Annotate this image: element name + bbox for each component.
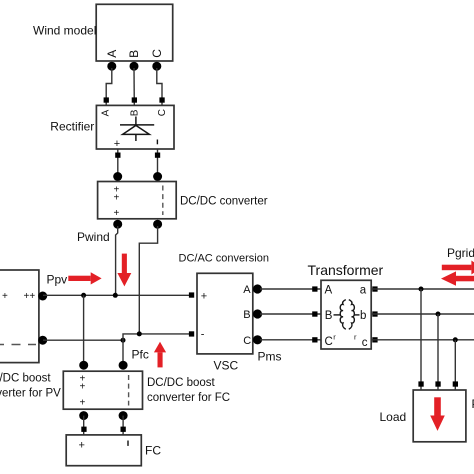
svg-text:VSC: VSC	[214, 359, 239, 373]
svg-text:B: B	[127, 50, 141, 58]
svg-text:+: +	[79, 440, 85, 452]
port square transformer B	[312, 311, 317, 316]
wire positive dc bus	[43, 294, 194, 296]
junction dot negative rail	[121, 338, 126, 343]
wire DC/DC out + down to dc bus	[116, 226, 118, 295]
junction dot phase b	[436, 312, 441, 317]
port dot PV out -	[38, 336, 47, 345]
port dot FC converter out -	[119, 411, 128, 420]
junction dot bus to FC converter	[81, 293, 86, 298]
port square transformer a	[372, 286, 377, 291]
port square VSC in -	[189, 331, 194, 336]
block: FC box	[66, 435, 141, 466]
svg-text:C: C	[150, 49, 164, 58]
port square load b	[435, 381, 440, 386]
svg-text:C: C	[243, 335, 251, 347]
block: Rectifier box	[96, 105, 174, 149]
svg-text:+: +	[80, 398, 86, 409]
port square load a	[418, 381, 423, 386]
port dot A wind	[107, 62, 116, 71]
svg-text:converter for PV: converter for PV	[0, 388, 61, 400]
svg-text:DC/DC boost: DC/DC boost	[0, 373, 51, 385]
port dot DC/DC out +	[113, 220, 122, 229]
port square transformer C	[312, 337, 317, 342]
svg-text:B: B	[243, 309, 250, 321]
diode symbol in rectifier	[120, 117, 154, 142]
port dot FC converter in +	[79, 361, 88, 370]
wire wind C to rectifier C	[157, 68, 162, 106]
block: Wind model box	[96, 4, 173, 61]
port dot VSC C	[253, 335, 262, 344]
svg-text:Load: Load	[380, 410, 407, 424]
port square rectifier out -	[155, 153, 160, 158]
port square A rectifier input	[104, 97, 109, 102]
svg-text:C: C	[325, 336, 333, 348]
wire FC converter to FC +	[83, 416, 85, 435]
dashed line inside PV converter	[0, 344, 36, 346]
port square transformer A	[312, 286, 317, 291]
wire phase c to grid	[371, 339, 474, 341]
block: DC/DC converter (wind) box	[98, 182, 177, 219]
svg-text:a: a	[360, 285, 367, 297]
svg-text:A: A	[243, 284, 251, 296]
arrow Pgrid import (red left)	[441, 271, 474, 285]
svg-text:FC: FC	[145, 444, 161, 458]
svg-text:+: +	[201, 290, 207, 302]
svg-text:DC/DC boost: DC/DC boost	[147, 377, 216, 389]
port dot VSC B	[253, 309, 262, 318]
wire bus down to FC converter +	[83, 295, 85, 364]
label - (rectifier dc out)	[157, 140, 158, 145]
svg-text:+: +	[114, 193, 120, 204]
svg-text:Pwind: Pwind	[77, 230, 110, 244]
svg-text:C: C	[157, 109, 168, 116]
port square C rectifier input	[159, 97, 164, 102]
svg-text:A: A	[325, 285, 333, 297]
wire VSC C to transformer	[260, 339, 321, 341]
wire phase c down to load	[454, 340, 456, 390]
svg-text:+: +	[114, 138, 120, 150]
arrow Pwind (red down)	[117, 254, 131, 287]
port dot B wind	[130, 62, 139, 71]
svg-text:-: -	[201, 329, 205, 341]
arrow load power (red down)	[430, 397, 445, 431]
port square FC +	[81, 427, 86, 432]
arrow Ppv (red right)	[68, 272, 101, 284]
svg-text:Ppv: Ppv	[47, 273, 68, 287]
port square transformer c	[372, 337, 377, 342]
svg-text:B: B	[325, 310, 333, 322]
label - inside FC	[127, 441, 128, 446]
svg-text:A: A	[105, 50, 119, 58]
wire negative rail from PV	[43, 339, 123, 341]
port square B rectifier input	[132, 97, 137, 102]
svg-text:+: +	[2, 291, 8, 302]
block: Load box	[413, 390, 466, 442]
wire VSC A to transformer	[260, 288, 321, 290]
wire phase b to grid	[371, 313, 474, 315]
wire phase b down to load	[437, 314, 439, 390]
junction dot negative rail wind	[137, 331, 142, 336]
port square load c	[453, 381, 458, 386]
svg-text:Transformer: Transformer	[308, 262, 384, 278]
wire FC converter to FC -	[122, 416, 124, 435]
svg-text:Pms: Pms	[258, 350, 282, 364]
port dot DC/DC in +	[113, 172, 122, 181]
junction dot phase c	[453, 337, 458, 342]
wire phase a down to load	[420, 289, 422, 390]
junction dot bus to wind DC/DC	[113, 293, 118, 298]
svg-text:Wind model: Wind model	[33, 24, 96, 38]
port dot C wind	[152, 62, 161, 71]
dashed line inside FC converter	[128, 375, 130, 406]
svg-text:B: B	[129, 109, 140, 116]
svg-text:+: +	[80, 382, 86, 393]
svg-text:+: +	[114, 208, 120, 219]
arrow Pfc (red up)	[154, 342, 166, 368]
dashed line inside DC/DC converter	[162, 186, 164, 216]
port square VSC in +	[189, 292, 194, 297]
arrow Pgrid export (red right)	[442, 261, 474, 275]
svg-text:Rectifier: Rectifier	[50, 120, 94, 134]
transformer coil symbol	[334, 300, 360, 330]
block: DC/DC boost converter for FC box	[63, 371, 142, 409]
svg-text:Pgrid: Pgrid	[447, 246, 474, 260]
svg-text:DC/AC conversion: DC/AC conversion	[179, 253, 269, 265]
port square transformer b	[372, 311, 377, 316]
wire negative rail jog up	[123, 334, 194, 340]
svg-text:converter for FC: converter for FC	[147, 392, 230, 404]
wire rectifier + to DC/DC	[117, 149, 119, 176]
port dot DC/DC in -	[153, 172, 162, 181]
port square rectifier out +	[115, 153, 120, 158]
svg-text:c: c	[362, 337, 368, 349]
svg-text:++: ++	[24, 291, 36, 302]
svg-text:A: A	[101, 109, 112, 116]
junction dot phase a	[419, 287, 424, 292]
block: Transformer box	[321, 280, 371, 349]
port square FC -	[121, 427, 126, 432]
wire wind B to rectifier B	[133, 68, 135, 106]
port dot PV out +	[38, 292, 47, 301]
port dot FC converter out +	[79, 411, 88, 420]
port dot VSC A	[253, 284, 262, 293]
wire negative rail down to FC converter -	[122, 340, 124, 364]
wire phase a to grid	[371, 288, 474, 290]
wire DC/DC out - down to negative rail	[139, 226, 157, 334]
svg-text:b: b	[360, 310, 366, 322]
svg-text:Pfc: Pfc	[132, 348, 149, 362]
port dot FC converter in -	[119, 361, 128, 370]
port dot DC/DC out -	[153, 220, 162, 229]
wire rectifier - to DC/DC	[157, 149, 159, 176]
block: DC/DC boost converter for PV box	[0, 270, 39, 363]
wire VSC B to transformer	[260, 313, 321, 315]
svg-text:DC/DC converter: DC/DC converter	[180, 196, 268, 208]
wire wind A to rectifier A	[106, 68, 112, 106]
block: VSC box	[197, 273, 253, 354]
